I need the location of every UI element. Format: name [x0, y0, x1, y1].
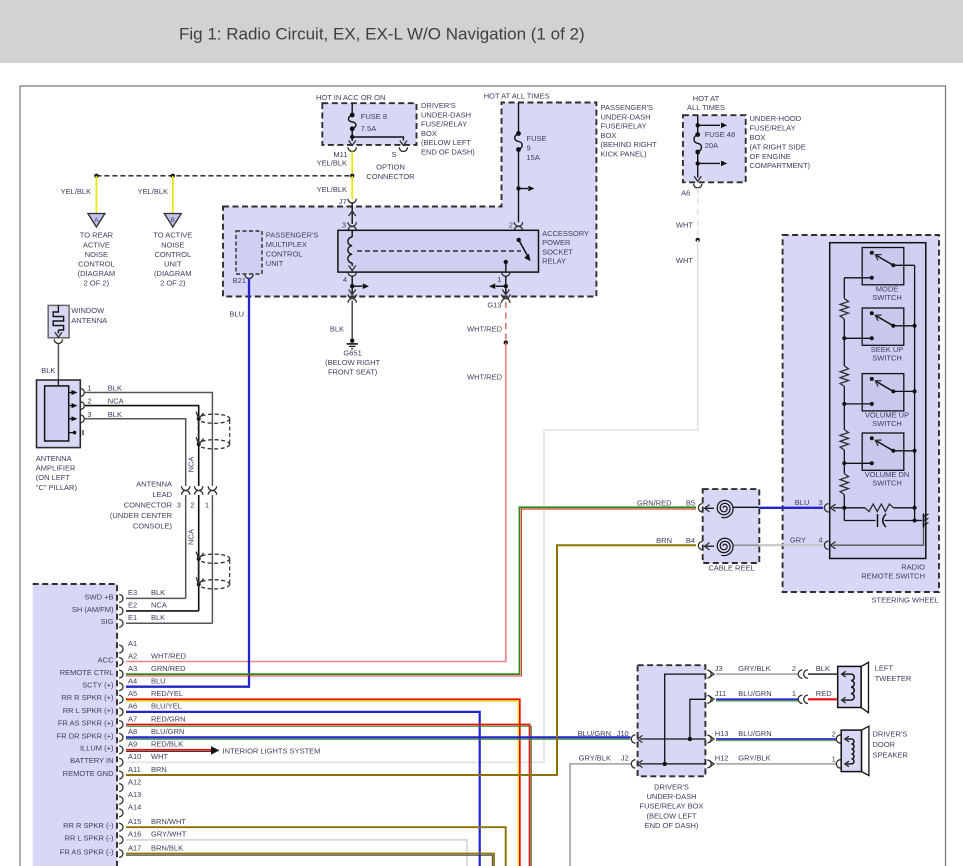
- arrow into A6: [694, 176, 701, 181]
- svg-text:BLU/GRN: BLU/GRN: [578, 729, 611, 738]
- svg-text:SPEAKER: SPEAKER: [873, 750, 909, 759]
- connector H12 exit: [707, 760, 711, 768]
- svg-text:(BELOW LEFT: (BELOW LEFT: [421, 138, 471, 147]
- svg-text:SOCKET: SOCKET: [542, 247, 573, 256]
- dashed common YEL/BLK wire: [96, 175, 352, 177]
- amplifier pin 2 arrow: [69, 405, 74, 407]
- connector B4: [698, 542, 702, 550]
- svg-text:FUSE/RELAY BOX: FUSE/RELAY BOX: [640, 802, 704, 811]
- connector J7: [348, 199, 356, 203]
- svg-text:BLU/GRN: BLU/GRN: [151, 727, 184, 736]
- svg-text:A7: A7: [128, 714, 137, 723]
- connector door speaker pin 2: [836, 735, 840, 743]
- splice node WHT: [696, 238, 700, 242]
- svg-text:SWD +B: SWD +B: [85, 592, 114, 601]
- wire RED/YEL pin A5 down offpage: [126, 699, 520, 866]
- svg-text:ACCESSORY: ACCESSORY: [542, 229, 589, 238]
- svg-text:WHT: WHT: [676, 256, 693, 265]
- wire GRY cable reel to remote switch pin 4: [759, 544, 823, 546]
- svg-text:LEAD: LEAD: [152, 490, 172, 499]
- seek up switch: [862, 308, 904, 345]
- connector pin4 at box edge: [348, 294, 356, 298]
- wire BLU cable reel to remote switch pin 3: [759, 507, 823, 509]
- connector J2: [631, 760, 635, 768]
- wire BLU/GRN J11 to inline connector: [716, 698, 798, 700]
- connector M11: [348, 147, 356, 151]
- svg-text:MULTIPLEX: MULTIPLEX: [266, 240, 307, 249]
- connector S (option connector): [399, 147, 407, 151]
- svg-text:"C" PILLAR): "C" PILLAR): [36, 483, 78, 492]
- wire J7 into multiplex unit: [351, 203, 353, 224]
- radio pin A13: [119, 796, 123, 804]
- svg-text:2: 2: [832, 730, 836, 739]
- svg-text:FR DR SPKR (+): FR DR SPKR (+): [57, 731, 114, 740]
- svg-text:J2: J2: [621, 754, 629, 763]
- wire WHT dashed from A6: [697, 188, 699, 240]
- svg-text:15A: 15A: [527, 153, 540, 162]
- remote switch pin 3: [824, 504, 828, 512]
- radio pin A14: [119, 809, 123, 817]
- svg-text:SWITCH: SWITCH: [872, 479, 902, 488]
- inline connector left tweeter pin 1: [798, 695, 802, 703]
- svg-text:ILLUM (+): ILLUM (+): [80, 744, 114, 753]
- right bus wire: [914, 265, 916, 520]
- node NCA upper cylinder top: [197, 417, 201, 421]
- svg-text:FUSE: FUSE: [527, 134, 547, 143]
- svg-text:2: 2: [509, 220, 513, 229]
- window antenna box: [48, 305, 69, 337]
- wire fuse48 to A6: [697, 152, 699, 178]
- wire fuse8 to M11: [351, 129, 353, 141]
- svg-text:DRIVER'S: DRIVER'S: [873, 730, 908, 739]
- node YEL/BLK at B drop: [171, 174, 175, 178]
- wire BLK to radio pin E1: [126, 622, 212, 624]
- svg-text:DOOR: DOOR: [873, 740, 896, 749]
- svg-text:(BELOW LEFT: (BELOW LEFT: [646, 811, 696, 820]
- svg-text:FUSE/RELAY: FUSE/RELAY: [601, 122, 647, 131]
- connector A6: [694, 184, 702, 188]
- node NCA lower cylinder bottom: [197, 582, 201, 586]
- wire BLU/YEL pin A6 down offpage: [126, 712, 480, 866]
- svg-text:BLU/YEL: BLU/YEL: [151, 702, 182, 711]
- radio pin E2 SH(AM/FM): [119, 607, 123, 615]
- resistor R5 pin3 row: [844, 507, 865, 509]
- svg-text:WHT: WHT: [676, 221, 693, 230]
- wire BLK window antenna to amplifier: [57, 344, 59, 381]
- svg-text:3: 3: [177, 501, 181, 510]
- svg-text:(UNDER CENTER: (UNDER CENTER: [110, 511, 173, 520]
- wire YEL/BLK to triangle A: [95, 176, 97, 214]
- wire BLK amplifier pin1 to lead connector 1: [85, 393, 212, 487]
- relay coil: [351, 230, 353, 237]
- svg-text:BRN: BRN: [656, 536, 672, 545]
- svg-text:ACC: ACC: [98, 655, 114, 664]
- wire RED to left tweeter: [808, 698, 838, 700]
- svg-text:A4: A4: [128, 677, 137, 686]
- svg-text:BRN: BRN: [151, 765, 167, 774]
- wire YEL/BLK from M11: [351, 152, 353, 176]
- wire WHT to radio pin A10: [126, 240, 698, 762]
- branch node fuse48 top: [696, 123, 700, 127]
- wire fuse 9 to relay pin 2: [518, 150, 520, 223]
- svg-text:J3: J3: [715, 664, 723, 673]
- svg-text:INTERIOR LIGHTS SYSTEM: INTERIOR LIGHTS SYSTEM: [223, 747, 321, 756]
- svg-text:FUSE/RELAY: FUSE/RELAY: [750, 124, 796, 133]
- svg-text:A17: A17: [128, 843, 141, 852]
- svg-text:ANTENNA: ANTENNA: [36, 454, 72, 463]
- svg-text:REMOTE SWITCH: REMOTE SWITCH: [861, 572, 925, 581]
- driver door speaker: [862, 726, 869, 775]
- svg-text:E1: E1: [128, 613, 137, 622]
- internal wire J2 to H12: [640, 763, 706, 765]
- svg-text:WHT/RED: WHT/RED: [151, 651, 187, 660]
- connector H13 exit: [707, 735, 711, 743]
- svg-text:B4: B4: [686, 536, 695, 545]
- amplifier pin 3 bump: [80, 415, 84, 423]
- svg-text:4: 4: [818, 536, 822, 545]
- fuse F48 20A: [694, 135, 702, 152]
- svg-text:A1: A1: [128, 639, 137, 648]
- node J2 branch: [663, 762, 667, 766]
- svg-text:E2: E2: [128, 601, 137, 610]
- capacitor C1 row: [844, 520, 875, 522]
- svg-text:BLU: BLU: [795, 498, 810, 507]
- svg-text:GRN/RED: GRN/RED: [151, 664, 186, 673]
- svg-text:NCA: NCA: [108, 397, 124, 406]
- svg-text:BLK: BLK: [330, 325, 344, 334]
- branch arrow fuse48 bottom: [698, 162, 720, 164]
- wire NCA amplifier pin2 to lead connector 2: [85, 406, 199, 486]
- svg-text:RELAY: RELAY: [542, 257, 566, 266]
- svg-text:1: 1: [832, 754, 836, 763]
- branch node pin 1: [504, 284, 508, 288]
- svg-text:WINDOW: WINDOW: [71, 306, 105, 315]
- internal wire J2 branch up to J3: [665, 674, 706, 764]
- wire BLK lead connector 1 down: [211, 495, 213, 623]
- svg-text:SH (AM/FM): SH (AM/FM): [72, 605, 114, 614]
- svg-text:OPTION: OPTION: [376, 163, 405, 172]
- door speaker coil: [845, 736, 849, 742]
- radio pin A15 RR R SPKR-: [119, 823, 123, 831]
- wire BLU/GRN H13 to door speaker: [716, 738, 836, 740]
- antenna amplifier inner unit: [45, 386, 69, 441]
- wire BLK lead connector 3 down: [185, 495, 187, 598]
- accessory power socket relay box: [338, 230, 539, 272]
- svg-text:A12: A12: [128, 777, 141, 786]
- svg-text:FUSE 48: FUSE 48: [705, 130, 735, 139]
- svg-text:BLU/GRN: BLU/GRN: [738, 689, 771, 698]
- svg-text:UNIT: UNIT: [164, 259, 182, 268]
- svg-text:CABLE REEL: CABLE REEL: [708, 564, 754, 573]
- branch arrow pin 4: [352, 285, 362, 287]
- connector B21 sub-box: [236, 231, 262, 274]
- ground radio remote switch: [923, 514, 925, 528]
- svg-text:(BEHIND RIGHT: (BEHIND RIGHT: [601, 140, 658, 149]
- inline connector left tweeter pin 2: [798, 670, 802, 678]
- svg-text:WHT/RED: WHT/RED: [467, 325, 503, 334]
- wire pin 4 to ground: [833, 528, 924, 546]
- node left bus volume dn: [842, 461, 846, 465]
- svg-text:SCTY (+): SCTY (+): [82, 681, 114, 690]
- svg-text:A2: A2: [128, 651, 137, 660]
- connector J11 exit: [707, 695, 711, 703]
- wire BLU/GRN pin A8 to J10: [126, 736, 631, 738]
- resistor R4: [840, 474, 848, 495]
- radio pin E3 SWD+B: [119, 595, 123, 603]
- radio pin A12: [119, 784, 123, 792]
- relay switch blade: [517, 238, 521, 242]
- svg-text:REMOTE GND: REMOTE GND: [63, 769, 114, 778]
- node YEL/BLK at M11 drop: [350, 174, 354, 178]
- wire GRY/BLK J3 to inline connector: [716, 673, 798, 675]
- wire relay pin 1 to G13: [505, 276, 507, 294]
- svg-text:BLK: BLK: [41, 366, 55, 375]
- junction node fuse8/S branch: [350, 135, 354, 139]
- svg-text:COMPARTMENT): COMPARTMENT): [750, 161, 811, 170]
- svg-text:RR R SPKR (-): RR R SPKR (-): [63, 821, 114, 830]
- amplifier pin 1 arrow: [69, 392, 74, 394]
- svg-text:BLU: BLU: [229, 310, 244, 319]
- passenger under-dash fuse/relay box + multiplex control unit region: [223, 103, 596, 297]
- svg-text:FR AS SPKR (-): FR AS SPKR (-): [60, 847, 114, 856]
- window antenna element: [53, 305, 63, 330]
- svg-text:DRIVER'S: DRIVER'S: [654, 782, 689, 791]
- wire WHT/RED dashed segment from G13: [505, 302, 507, 341]
- branch arrow pin 1: [496, 285, 506, 287]
- svg-text:4: 4: [343, 275, 347, 284]
- svg-text:FRONT SEAT): FRONT SEAT): [328, 368, 378, 377]
- connector door speaker pin 1: [836, 760, 840, 768]
- svg-text:2 OF 2): 2 OF 2): [160, 278, 186, 287]
- svg-text:B21: B21: [233, 276, 246, 285]
- node left bus seek up: [842, 336, 846, 340]
- svg-text:WHT/RED: WHT/RED: [467, 373, 503, 382]
- svg-text:A3: A3: [128, 664, 137, 673]
- svg-text:SWITCH: SWITCH: [872, 354, 902, 363]
- radio remote switch box: [830, 243, 926, 559]
- wire RED/BLK pin A9 to interior lights system: [126, 749, 211, 751]
- wire BLK amplifier pin3 to lead connector 3: [85, 419, 186, 486]
- svg-text:FR AS SPKR (+): FR AS SPKR (+): [58, 718, 114, 727]
- radio pin E1 SIG: [119, 619, 123, 627]
- svg-text:SIG: SIG: [101, 617, 114, 626]
- connector G13: [502, 294, 510, 298]
- node right bus pin3 row: [913, 506, 917, 510]
- svg-text:BRN/BLK: BRN/BLK: [151, 843, 183, 852]
- svg-text:RADIO: RADIO: [901, 563, 925, 572]
- svg-text:(DIAGRAM: (DIAGRAM: [78, 269, 116, 278]
- node J10 branch: [688, 737, 692, 741]
- svg-text:BOX: BOX: [601, 131, 617, 140]
- svg-text:NOISE: NOISE: [161, 240, 184, 249]
- radio pin A17 FR AS SPKR-: [119, 850, 123, 858]
- radio pin A5 RR R SPKR+: [119, 695, 123, 703]
- svg-text:BLU/GRN: BLU/GRN: [738, 729, 771, 738]
- remote switch pin 4: [824, 541, 828, 549]
- destination triangle B: [164, 214, 181, 228]
- svg-text:E3: E3: [128, 588, 137, 597]
- svg-text:BATTERY IN: BATTERY IN: [70, 756, 113, 765]
- svg-text:PASSENGER'S: PASSENGER'S: [601, 103, 654, 112]
- ground G651: [350, 339, 354, 343]
- svg-text:BRN/WHT: BRN/WHT: [151, 817, 186, 826]
- node left bus volume up: [842, 402, 846, 406]
- node YEL/BLK at A drop: [94, 174, 98, 178]
- connector below window antenna: [54, 339, 62, 343]
- steering wheel dashed box: [783, 235, 939, 592]
- branch node pin 4: [350, 284, 354, 288]
- svg-text:A10: A10: [128, 752, 141, 761]
- svg-text:TWEETER: TWEETER: [875, 674, 912, 683]
- wire BLK to G651: [351, 301, 353, 340]
- svg-text:RED/BLK: RED/BLK: [151, 740, 183, 749]
- relay pin 1 contact stub: [504, 260, 508, 264]
- svg-text:BLK: BLK: [108, 384, 122, 393]
- svg-text:A5: A5: [128, 689, 137, 698]
- connector B5: [698, 504, 702, 512]
- svg-text:AMPLIFIER: AMPLIFIER: [36, 464, 76, 473]
- svg-text:RR L SPKR (+): RR L SPKR (+): [63, 706, 114, 715]
- cable reel coil B4: [717, 538, 733, 556]
- svg-text:HOT AT: HOT AT: [693, 94, 720, 103]
- svg-text:YEL/BLK: YEL/BLK: [61, 187, 91, 196]
- svg-text:20A: 20A: [705, 141, 718, 150]
- svg-text:9: 9: [527, 143, 531, 152]
- node right bus volume up: [913, 389, 917, 393]
- relay mechanical link (dashed): [357, 250, 521, 252]
- fuse F8 7.5A: [348, 115, 356, 129]
- svg-text:UNDER-DASH: UNDER-DASH: [421, 110, 471, 119]
- svg-text:2: 2: [792, 664, 796, 673]
- svg-text:UNDER-HOOD: UNDER-HOOD: [750, 114, 802, 123]
- svg-text:A13: A13: [128, 790, 141, 799]
- svg-text:BOX: BOX: [421, 129, 437, 138]
- title bar: [0, 0, 963, 63]
- splice node WHT/RED: [504, 340, 508, 344]
- wire relay pin 4 to G651: [351, 276, 353, 294]
- svg-text:(BELOW RIGHT: (BELOW RIGHT: [325, 358, 380, 367]
- amplifier case ground pin: [69, 432, 75, 434]
- arrow pin4 down: [349, 290, 356, 295]
- resistor R1: [840, 299, 848, 320]
- svg-text:POWER: POWER: [542, 238, 571, 247]
- svg-text:A8: A8: [128, 727, 137, 736]
- svg-text:S: S: [391, 150, 396, 159]
- svg-text:A16: A16: [128, 830, 141, 839]
- node capacitor right: [913, 519, 917, 523]
- antenna amplifier box: [37, 380, 81, 448]
- fuse F9 15A: [515, 134, 523, 150]
- radio pin A2 ACC: [119, 658, 123, 666]
- mode switch: [862, 248, 904, 285]
- svg-text:TO REAR: TO REAR: [80, 231, 114, 240]
- driver under-dash fuse/relay box (bottom): [638, 665, 706, 776]
- destination triangle A: [88, 214, 105, 228]
- svg-text:RED: RED: [816, 689, 832, 698]
- svg-text:RED/GRN: RED/GRN: [151, 714, 186, 723]
- radio pin A11 REMOTE GND: [119, 771, 123, 779]
- radio pin A3 REMOTE CTRL: [119, 670, 123, 678]
- svg-text:1: 1: [87, 384, 91, 393]
- svg-text:J7: J7: [339, 197, 347, 206]
- svg-text:GRY/BLK: GRY/BLK: [579, 754, 611, 763]
- svg-text:STEERING WHEEL: STEERING WHEEL: [872, 595, 939, 604]
- wire BRN pin A11 to cable reel B4: [126, 545, 696, 775]
- amplifier pin 3 arrow: [69, 418, 74, 420]
- svg-text:1: 1: [792, 689, 796, 698]
- internal wire J10 branch up to J11: [690, 699, 706, 739]
- svg-text:HOT AT ALL TIMES: HOT AT ALL TIMES: [484, 91, 550, 100]
- radio pin A1: [119, 645, 123, 653]
- svg-text:A14: A14: [128, 803, 141, 812]
- svg-text:ANTENNA: ANTENNA: [71, 316, 107, 325]
- svg-text:2 OF 2): 2 OF 2): [84, 278, 110, 287]
- svg-text:A6: A6: [128, 702, 137, 711]
- svg-text:B5: B5: [686, 499, 695, 508]
- svg-text:CONSOLE): CONSOLE): [133, 522, 173, 531]
- svg-text:A15: A15: [128, 817, 141, 826]
- svg-text:2: 2: [87, 397, 91, 406]
- svg-text:FUSE 8: FUSE 8: [361, 112, 387, 121]
- amplifier internal wire from antenna: [57, 380, 59, 386]
- svg-text:BLK: BLK: [151, 588, 165, 597]
- relay pin 4 connector: [348, 272, 356, 276]
- svg-text:ACTIVE: ACTIVE: [83, 240, 110, 249]
- svg-text:NOISE: NOISE: [85, 250, 108, 259]
- svg-text:ANTENNA: ANTENNA: [136, 480, 172, 489]
- svg-text:END OF DASH): END OF DASH): [645, 821, 699, 830]
- svg-text:YEL/BLK: YEL/BLK: [138, 187, 168, 196]
- wire BLK to left tweeter: [808, 673, 838, 675]
- left bus wire: [843, 278, 845, 299]
- radio pin A7 FR AS SPKR+: [119, 721, 123, 729]
- inline connector cylinder lower: [198, 554, 229, 563]
- relay pin 3 connector: [348, 222, 356, 226]
- svg-text:A9: A9: [128, 740, 137, 749]
- svg-text:WHT: WHT: [151, 752, 168, 761]
- wire WHT/RED to radio ACC pin A2: [126, 343, 506, 662]
- node NCA lower cylinder top: [197, 557, 201, 561]
- svg-text:UNIT: UNIT: [266, 259, 284, 268]
- svg-text:UNDER-DASH: UNDER-DASH: [601, 112, 651, 121]
- svg-text:TO ACTIVE: TO ACTIVE: [153, 231, 192, 240]
- svg-text:LEFT: LEFT: [875, 664, 894, 673]
- svg-text:NCA: NCA: [151, 601, 167, 610]
- left tweeter speaker: [861, 662, 868, 712]
- svg-text:7.5A: 7.5A: [361, 124, 376, 133]
- svg-text:GRY: GRY: [790, 536, 806, 545]
- wire BLU B21 to radio SCTY pin A4: [126, 279, 249, 687]
- antenna lead connector 2: [195, 486, 203, 490]
- radio pin A16 RR L SPKR-: [119, 836, 123, 844]
- svg-text:B: B: [171, 217, 175, 224]
- amplifier pin 1 bump: [80, 389, 84, 397]
- resistor R2: [840, 366, 848, 387]
- wire BRN/WHT pin A15 down offpage: [126, 827, 506, 866]
- wire branch to option connector S: [352, 137, 403, 141]
- svg-text:HOT IN ACC OR ON: HOT IN ACC OR ON: [316, 93, 385, 102]
- wire GRY/BLK J2 down offpage: [570, 764, 631, 866]
- svg-text:DRIVER'S: DRIVER'S: [421, 101, 456, 110]
- wire YEL/BLK to J7: [351, 176, 353, 199]
- svg-text:1: 1: [205, 501, 209, 510]
- svg-text:OF ENGINE: OF ENGINE: [750, 152, 791, 161]
- radio pin A10 BATTERY IN: [119, 758, 123, 766]
- node left bus pin3 row: [842, 506, 846, 510]
- svg-text:G13: G13: [487, 301, 501, 310]
- under-hood fuse/relay box (fuse 48): [683, 115, 746, 182]
- svg-text:H12: H12: [715, 754, 729, 763]
